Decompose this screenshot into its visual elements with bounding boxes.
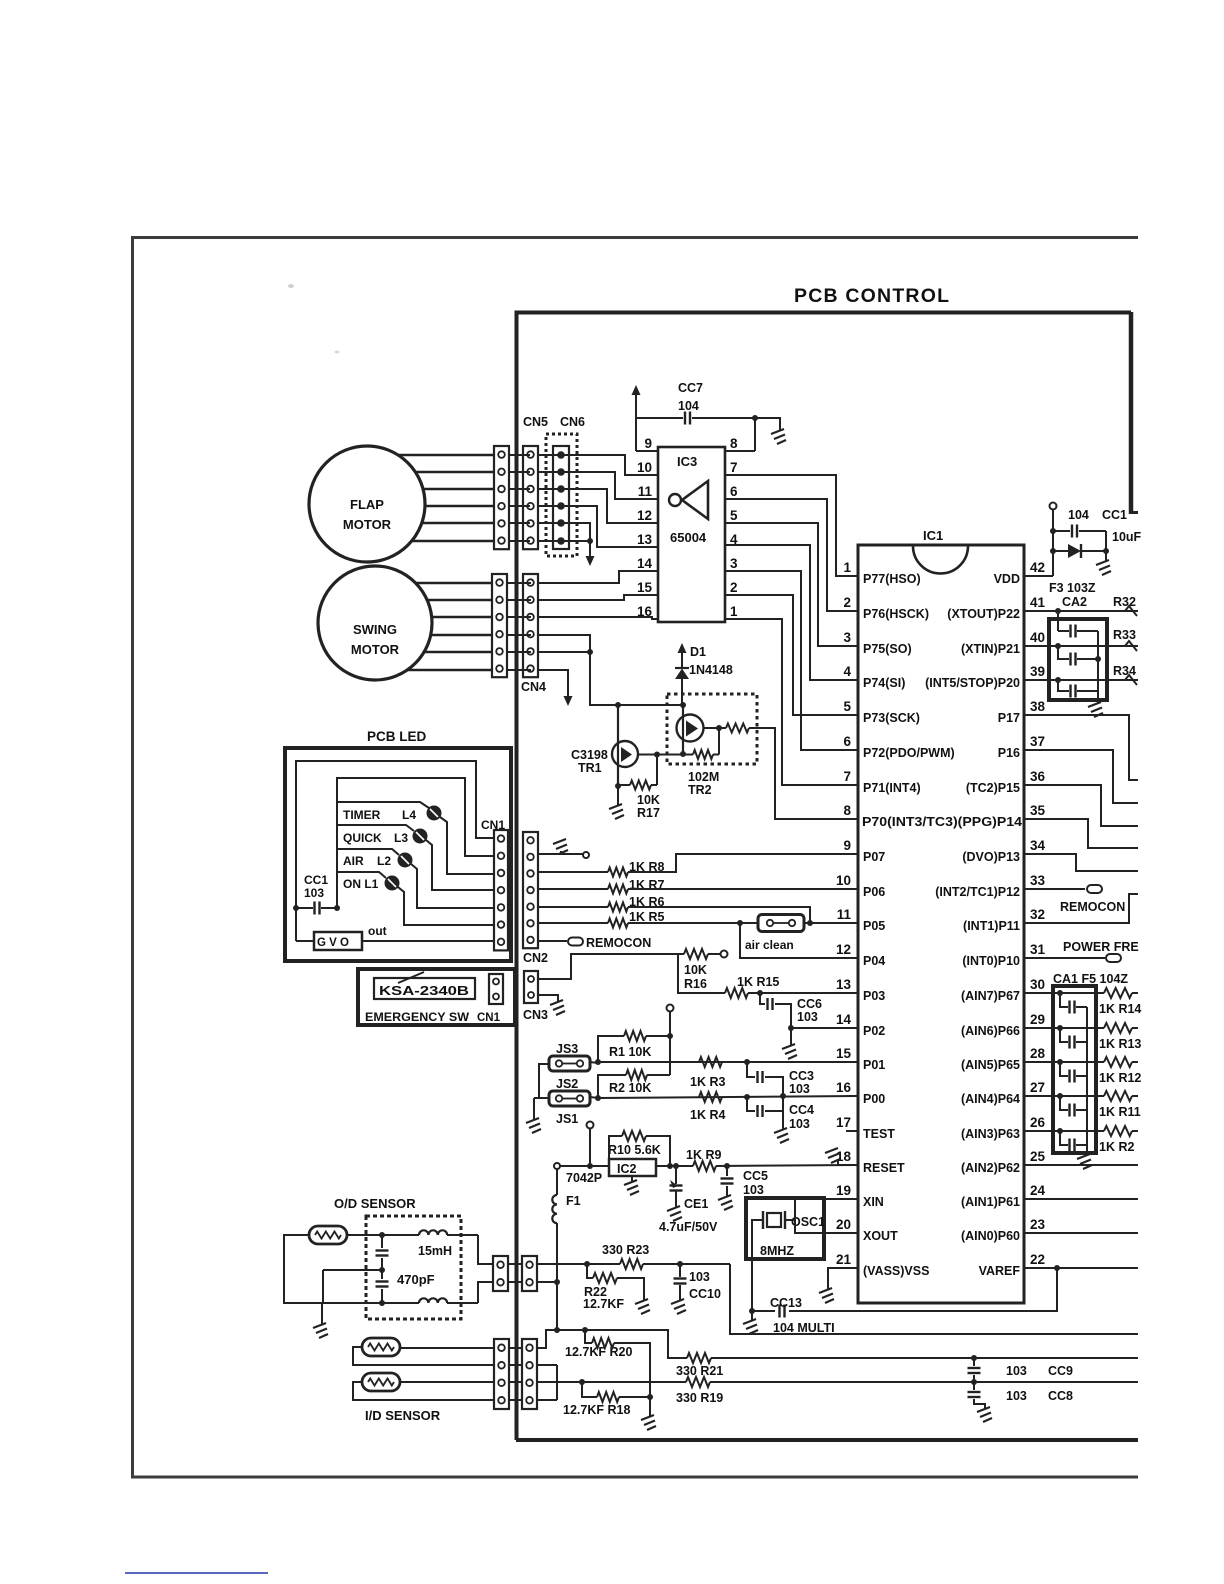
svg-text:19: 19 [836, 1183, 851, 1198]
svg-text:11: 11 [837, 907, 852, 922]
wire pin32 out [1040, 894, 1138, 923]
wire pin36 out [1040, 785, 1138, 826]
svg-text:(INT1)P11: (INT1)P11 [963, 919, 1020, 933]
wire pin23 out [1040, 1232, 1138, 1234]
wire CN4-6 to arrow [539, 670, 568, 688]
svg-text:10: 10 [637, 460, 652, 475]
svg-text:REMOCON: REMOCON [1060, 900, 1125, 914]
svg-text:21: 21 [836, 1252, 852, 1267]
wire F1 down [556, 1223, 558, 1330]
ground CC1 [1096, 560, 1111, 575]
inductor bottom [309, 1302, 419, 1304]
wire pin9 IC3 [635, 418, 637, 451]
svg-text:10uF: 10uF [1112, 530, 1142, 544]
PCB board outline [517, 313, 1132, 1441]
wire ID c2 c4 [537, 1364, 557, 1366]
svg-text:103: 103 [1006, 1364, 1027, 1378]
wire R23 out [730, 1264, 1138, 1334]
svg-text:8MHZ: 8MHZ [760, 1244, 794, 1258]
diode zener row [1053, 550, 1068, 552]
wire CN4-4 down to TR circuit [539, 635, 683, 705]
terminal above R1 [667, 1005, 674, 1012]
svg-text:R1 10K: R1 10K [609, 1045, 651, 1059]
connector CN1 [494, 830, 508, 950]
air clean switch [758, 915, 804, 932]
flap motor connector [494, 446, 509, 549]
svg-text:(INT0)P10: (INT0)P10 [962, 954, 1020, 968]
wire CC7 to ground [755, 418, 780, 431]
wire IC3 pin4 to IC1 pin4 [725, 545, 858, 680]
wire IC3 pin6 to IC1 pin2 [725, 499, 858, 611]
svg-text:P76(HSCK): P76(HSCK) [863, 607, 929, 621]
ground CC3 CC4 [782, 1111, 784, 1130]
resistor TR2 base-emitter [667, 754, 693, 756]
svg-text:25: 25 [1030, 1149, 1046, 1164]
resistor TR2 collector [726, 724, 749, 733]
svg-text:R33: R33 [1113, 628, 1136, 642]
wire TR2 to IC1 pin8 P70 [757, 728, 858, 819]
swing motor connector [492, 574, 507, 677]
REMOCON pill CN2 [538, 940, 567, 942]
svg-text:12: 12 [836, 942, 851, 957]
svg-text:6: 6 [843, 734, 851, 749]
wire P01 row [590, 1062, 598, 1063]
svg-text:14: 14 [637, 556, 653, 571]
svg-text:1K R2: 1K R2 [1099, 1140, 1134, 1154]
svg-text:29: 29 [1030, 1012, 1045, 1027]
svg-text:CN5: CN5 [523, 415, 548, 429]
LED block outer loop wire [296, 761, 494, 931]
svg-text:TR2: TR2 [688, 783, 712, 797]
terminal above IC2 [587, 1122, 594, 1129]
wires OD connectors [508, 1263, 522, 1265]
svg-text:4.7uF/50V: 4.7uF/50V [659, 1220, 718, 1234]
svg-text:XIN: XIN [863, 1195, 884, 1209]
svg-text:P06: P06 [863, 885, 885, 899]
svg-text:1K R15: 1K R15 [737, 975, 779, 989]
ground CA2 [1088, 702, 1103, 717]
svg-text:P03: P03 [863, 989, 885, 1003]
svg-text:330 R23: 330 R23 [602, 1243, 649, 1257]
wire XOUT [795, 1220, 858, 1233]
svg-text:7: 7 [843, 769, 851, 784]
svg-text:27: 27 [1030, 1080, 1045, 1095]
CA1 internal bus [1086, 1007, 1088, 1156]
ground O/D [321, 1303, 323, 1325]
wire IC3 pin5 to IC1 pin3 [725, 523, 858, 646]
svg-text:3: 3 [730, 556, 738, 571]
ground R20 R18 [641, 1415, 656, 1430]
wire OD c2 to F1 line [537, 1281, 557, 1283]
wire pin24 out [1040, 1198, 1138, 1200]
svg-text:P74(SI): P74(SI) [863, 676, 905, 690]
capacitor array CA1 [1053, 986, 1096, 1153]
svg-text:(AIN7)P67: (AIN7)P67 [961, 989, 1020, 1003]
wire pin35 out [1040, 819, 1138, 848]
wires ID connectors [509, 1347, 522, 1349]
connector ID inside [522, 1339, 537, 1409]
svg-text:42: 42 [1030, 560, 1045, 575]
O/D connector outside [493, 1256, 508, 1291]
svg-text:R32: R32 [1113, 595, 1136, 609]
svg-text:330 R21: 330 R21 [676, 1364, 723, 1378]
thermistor O/D [309, 1226, 347, 1244]
svg-text:CN1: CN1 [477, 1012, 501, 1024]
svg-text:P71(INT4): P71(INT4) [863, 781, 921, 795]
svg-text:P07: P07 [863, 850, 885, 864]
svg-text:28: 28 [1030, 1046, 1046, 1061]
svg-text:104 MULTI: 104 MULTI [773, 1321, 835, 1335]
svg-text:41: 41 [1030, 595, 1046, 610]
svg-text:P17: P17 [998, 711, 1020, 725]
svg-text:30: 30 [1030, 977, 1045, 992]
svg-text:F3 103Z: F3 103Z [1049, 581, 1096, 595]
svg-text:5: 5 [730, 508, 738, 523]
svg-text:2: 2 [843, 595, 851, 610]
connector CN4 [523, 574, 538, 677]
wire pin22 VAREF out [1040, 1267, 1138, 1269]
svg-text:3: 3 [843, 630, 851, 645]
svg-text:22: 22 [1030, 1252, 1045, 1267]
capacitor CC13 104 MULTI [778, 1305, 780, 1318]
wire CN6-1 to IC3 pin10 [561, 455, 658, 475]
svg-text:CC6: CC6 [797, 997, 822, 1011]
transistor TR2 [682, 705, 684, 754]
LED block second loop wire [337, 778, 494, 908]
oscillator OSC1 8MHZ [746, 1198, 824, 1259]
wires flap motor to connector [398, 454, 494, 457]
svg-text:TR1: TR1 [578, 761, 602, 775]
svg-text:CC3: CC3 [789, 1069, 814, 1083]
svg-text:26: 26 [1030, 1115, 1046, 1130]
down arrow under CN6 [589, 541, 591, 558]
svg-text:AIR: AIR [343, 854, 364, 868]
wires O/D to connector [478, 1235, 493, 1264]
resistor R16 10K [538, 954, 678, 979]
connector CN3 [524, 971, 538, 1003]
thermistor I/D 1 [362, 1338, 400, 1356]
svg-text:(AIN1)P61: (AIN1)P61 [961, 1195, 1020, 1209]
svg-text:(AIN3)P63: (AIN3)P63 [961, 1127, 1020, 1141]
svg-text:IC3: IC3 [677, 454, 697, 469]
svg-text:REMOCON: REMOCON [586, 936, 651, 950]
svg-text:1K R11: 1K R11 [1099, 1105, 1141, 1119]
connector OD inside [522, 1256, 537, 1291]
svg-text:P00: P00 [863, 1092, 885, 1106]
svg-text:O/D SENSOR: O/D SENSOR [334, 1196, 416, 1211]
wire CN4-3 to IC3 pin16 [539, 617, 658, 619]
svg-text:L4: L4 [402, 808, 416, 822]
svg-text:34: 34 [1030, 838, 1046, 853]
svg-text:1K R3: 1K R3 [690, 1075, 725, 1089]
ground at CC7 [771, 429, 786, 444]
svg-text:air clean: air clean [745, 938, 794, 952]
svg-text:13: 13 [836, 977, 852, 992]
svg-text:R10 5.6K: R10 5.6K [608, 1143, 661, 1157]
svg-text:23: 23 [1030, 1217, 1046, 1232]
svg-text:ON L1: ON L1 [343, 877, 379, 891]
svg-text:CE1: CE1 [684, 1197, 708, 1211]
svg-text:9: 9 [843, 838, 851, 853]
svg-text:D1: D1 [690, 645, 706, 659]
svg-text:16: 16 [836, 1080, 852, 1095]
svg-text:11: 11 [638, 484, 653, 499]
svg-text:RESET: RESET [863, 1161, 905, 1175]
wire to R21 [585, 1330, 687, 1358]
svg-text:CN6: CN6 [560, 415, 585, 429]
svg-text:TEST: TEST [863, 1127, 895, 1141]
svg-text:(AIN5)P65: (AIN5)P65 [961, 1058, 1020, 1072]
svg-text:1K R4: 1K R4 [690, 1108, 725, 1122]
svg-text:R34: R34 [1113, 664, 1136, 678]
IC1 left pin stubs and numbers 1-21 [846, 575, 858, 577]
wire XIN [785, 1199, 858, 1220]
svg-text:CC4: CC4 [789, 1103, 814, 1117]
wire pin25 out [1040, 1164, 1138, 1166]
thermistor I/D 2 [362, 1373, 400, 1391]
wire pin37 P16 out [1040, 750, 1138, 803]
svg-text:P72(PDO/PWM): P72(PDO/PWM) [863, 746, 955, 760]
flap motor [309, 446, 425, 562]
svg-text:102M: 102M [688, 770, 719, 784]
svg-text:104: 104 [1068, 508, 1089, 522]
svg-text:7: 7 [730, 460, 738, 475]
svg-text:CN3: CN3 [523, 1008, 548, 1022]
svg-text:40: 40 [1030, 630, 1045, 645]
wires I/D sensors [400, 1347, 494, 1349]
scan specks [288, 284, 294, 288]
wire out to CN1 [362, 940, 494, 942]
wire pin40 R33 [1040, 645, 1138, 647]
svg-text:XOUT: XOUT [863, 1229, 898, 1243]
svg-text:CC8: CC8 [1048, 1389, 1073, 1403]
emergency sw connector [489, 974, 503, 1004]
svg-text:(AIN6)P66: (AIN6)P66 [961, 1024, 1020, 1038]
svg-text:103: 103 [789, 1082, 810, 1096]
IC1 microcontroller box [858, 545, 1024, 1303]
wire VAREF loop [789, 1268, 1057, 1311]
IC1 right pin stubs and numbers 42-22 [1024, 575, 1040, 577]
emergency switch KSA-2340B [358, 969, 515, 1025]
ground IC2 [631, 1176, 633, 1182]
svg-text:103: 103 [1006, 1389, 1027, 1403]
wires connector to CN4 [507, 582, 531, 584]
svg-text:10K: 10K [637, 793, 660, 807]
wire P00 row [590, 1097, 598, 1098]
wire pin34 out [1040, 854, 1138, 871]
wire pin29 1K R13 [1040, 1027, 1104, 1029]
wire ID c1 up [537, 1330, 585, 1348]
svg-text:KSA-2340B: KSA-2340B [379, 983, 469, 998]
ground pin18 RESET [838, 1164, 846, 1166]
svg-text:P05: P05 [863, 919, 885, 933]
svg-text:330 R19: 330 R19 [676, 1391, 723, 1405]
wire pin38 P17 out [1040, 715, 1138, 780]
svg-text:4: 4 [843, 664, 851, 679]
svg-text:20: 20 [836, 1217, 851, 1232]
resistor R17 10K [656, 755, 658, 786]
wire IC3 pin1 to IC1 pin7 [725, 619, 858, 785]
svg-text:8: 8 [730, 436, 738, 451]
wires swing motor to connector [416, 582, 492, 585]
wire pin27 1K R11 [1040, 1095, 1104, 1097]
svg-text:QUICK: QUICK [343, 831, 382, 845]
svg-text:1K R5: 1K R5 [629, 910, 664, 924]
svg-text:CA1 F5 104Z: CA1 F5 104Z [1053, 972, 1128, 986]
svg-text:(XTOUT)P22: (XTOUT)P22 [947, 607, 1020, 621]
wire CN6-2 to IC3 pin11 [561, 472, 658, 499]
svg-text:(XTIN)P21: (XTIN)P21 [961, 642, 1020, 656]
svg-text:65004: 65004 [670, 530, 707, 545]
svg-text:(AIN2)P62: (AIN2)P62 [961, 1161, 1020, 1175]
svg-text:CN2: CN2 [523, 951, 548, 965]
wire pin39 R34 [1040, 679, 1138, 681]
wire P02 [791, 1027, 858, 1029]
crystal [762, 1211, 764, 1229]
svg-text:36: 36 [1030, 769, 1046, 784]
svg-text:(INT5/STOP)P20: (INT5/STOP)P20 [925, 676, 1020, 690]
svg-text:38: 38 [1030, 699, 1046, 714]
wire IC3 pin3 to IC1 pin6 [725, 571, 858, 750]
wire IC3 pin7 to IC1 pin1 [725, 475, 858, 576]
svg-text:7042P: 7042P [566, 1171, 602, 1185]
capacitor CE1 4.7uF/50V [675, 1166, 677, 1184]
wire pin30 1K R14 [1040, 992, 1104, 994]
wire CN6-6 junction [561, 540, 590, 542]
svg-text:15mH: 15mH [418, 1244, 452, 1258]
wire pin8 IC3 [725, 450, 755, 452]
swing motor [318, 566, 432, 680]
svg-text:1K R13: 1K R13 [1099, 1037, 1141, 1051]
svg-text:(AIN0)P60: (AIN0)P60 [961, 1229, 1020, 1243]
svg-text:P70(INT3/TC3)(PPG)P14: P70(INT3/TC3)(PPG)P14 [862, 815, 1022, 829]
O/D filter dashed box [366, 1216, 461, 1319]
svg-text:1N4148: 1N4148 [689, 663, 733, 677]
svg-text:P73(SCK): P73(SCK) [863, 711, 920, 725]
svg-text:MOTOR: MOTOR [343, 517, 392, 532]
svg-text:(AIN4)P64: (AIN4)P64 [961, 1092, 1020, 1106]
svg-text:(DVO)P13: (DVO)P13 [962, 850, 1020, 864]
wire CN6-5 to arrow [561, 523, 590, 548]
svg-text:JS2: JS2 [556, 1077, 578, 1091]
svg-text:12: 12 [637, 508, 652, 523]
svg-text:IC1: IC1 [923, 528, 943, 543]
svg-text:P77(HSO): P77(HSO) [863, 572, 921, 586]
wire CN4-5 [539, 651, 590, 653]
svg-text:JS3: JS3 [556, 1042, 578, 1056]
wire CN4-1 to IC3 pin14 [539, 571, 658, 583]
svg-text:JS1: JS1 [556, 1112, 578, 1126]
pin33 REMOCON stub [1040, 888, 1085, 890]
wire pin42 VDD [1024, 575, 1053, 577]
svg-text:G V O: G V O [317, 937, 349, 949]
svg-text:103: 103 [743, 1183, 764, 1197]
diode D1 1N4148 [681, 651, 683, 668]
svg-text:12.7KF: 12.7KF [583, 1297, 624, 1311]
wires connector to CN5 [509, 454, 530, 456]
svg-text:R2 10K: R2 10K [609, 1081, 651, 1095]
svg-text:1K R14: 1K R14 [1099, 1002, 1141, 1016]
svg-text:35: 35 [1030, 803, 1046, 818]
wire crystal left [752, 1220, 763, 1311]
ground pin21 VSS [828, 1268, 846, 1290]
svg-text:1K R9: 1K R9 [686, 1148, 721, 1162]
svg-text:P02: P02 [863, 1024, 885, 1038]
svg-text:CC13: CC13 [770, 1296, 802, 1310]
wire pin41 R32 [1040, 610, 1138, 612]
svg-text:CC9: CC9 [1048, 1364, 1073, 1378]
svg-text:1: 1 [843, 560, 851, 575]
svg-text:1K R12: 1K R12 [1099, 1071, 1141, 1085]
svg-text:33: 33 [1030, 873, 1046, 888]
svg-text:39: 39 [1030, 664, 1045, 679]
svg-text:1: 1 [730, 604, 738, 619]
svg-text:103: 103 [689, 1270, 710, 1284]
terminal F1 [554, 1163, 560, 1169]
svg-text:8: 8 [843, 803, 851, 818]
ground CA1 [1077, 1154, 1092, 1169]
vdd line terminal [1050, 503, 1057, 510]
bottom blue line [125, 1572, 268, 1574]
svg-text:out: out [368, 924, 387, 938]
I/D connector outside [494, 1339, 509, 1409]
svg-text:17: 17 [836, 1115, 851, 1130]
svg-text:12.7KF R18: 12.7KF R18 [563, 1403, 630, 1417]
svg-text:9: 9 [644, 436, 652, 451]
svg-text:L3: L3 [394, 831, 408, 845]
svg-text:(TC2)P15: (TC2)P15 [966, 781, 1020, 795]
svg-text:VAREF: VAREF [979, 1264, 1021, 1278]
PCB LED outer box [285, 748, 511, 961]
ground CC13 [743, 1319, 758, 1334]
svg-text:103: 103 [789, 1117, 810, 1131]
svg-text:FLAP: FLAP [350, 497, 384, 512]
svg-text:CC5: CC5 [743, 1169, 768, 1183]
svg-text:PCB CONTROL: PCB CONTROL [794, 285, 950, 307]
svg-text:CA2: CA2 [1062, 595, 1087, 609]
wire 470pF mid [323, 1269, 382, 1271]
svg-text:104: 104 [678, 399, 699, 413]
svg-text:C3198: C3198 [571, 748, 608, 762]
TR1 collector wire [638, 754, 667, 756]
svg-text:10: 10 [836, 873, 851, 888]
svg-text:P01: P01 [863, 1058, 885, 1072]
ground TR1 [617, 786, 619, 806]
wire GVO left [295, 931, 297, 941]
svg-text:(VASS)VSS: (VASS)VSS [863, 1264, 929, 1278]
svg-text:OSC1: OSC1 [791, 1215, 825, 1229]
wire air clean to P04 [740, 923, 858, 958]
svg-text:POWER FRE: POWER FRE [1063, 940, 1139, 954]
svg-text:IC2: IC2 [617, 1162, 637, 1176]
svg-text:(INT2/TC1)P12: (INT2/TC1)P12 [935, 885, 1020, 899]
svg-text:L2: L2 [377, 854, 391, 868]
outer frame [133, 238, 1139, 1478]
svg-text:TIMER: TIMER [343, 808, 381, 822]
svg-text:6: 6 [730, 484, 738, 499]
svg-text:14: 14 [836, 1012, 852, 1027]
svg-text:13: 13 [637, 532, 653, 547]
ground CN3 [538, 995, 558, 1002]
wire CN6-3 to IC3 pin12 [561, 489, 658, 523]
svg-text:R17: R17 [637, 806, 660, 820]
wire F1 to IC2 [558, 1165, 609, 1167]
ground CN2 top [538, 853, 583, 855]
svg-text:32: 32 [1030, 907, 1045, 922]
capacitor array CA2 [1049, 619, 1107, 700]
svg-text:103: 103 [304, 886, 324, 900]
wire CN4-2 to IC3 pin15 [539, 595, 658, 600]
